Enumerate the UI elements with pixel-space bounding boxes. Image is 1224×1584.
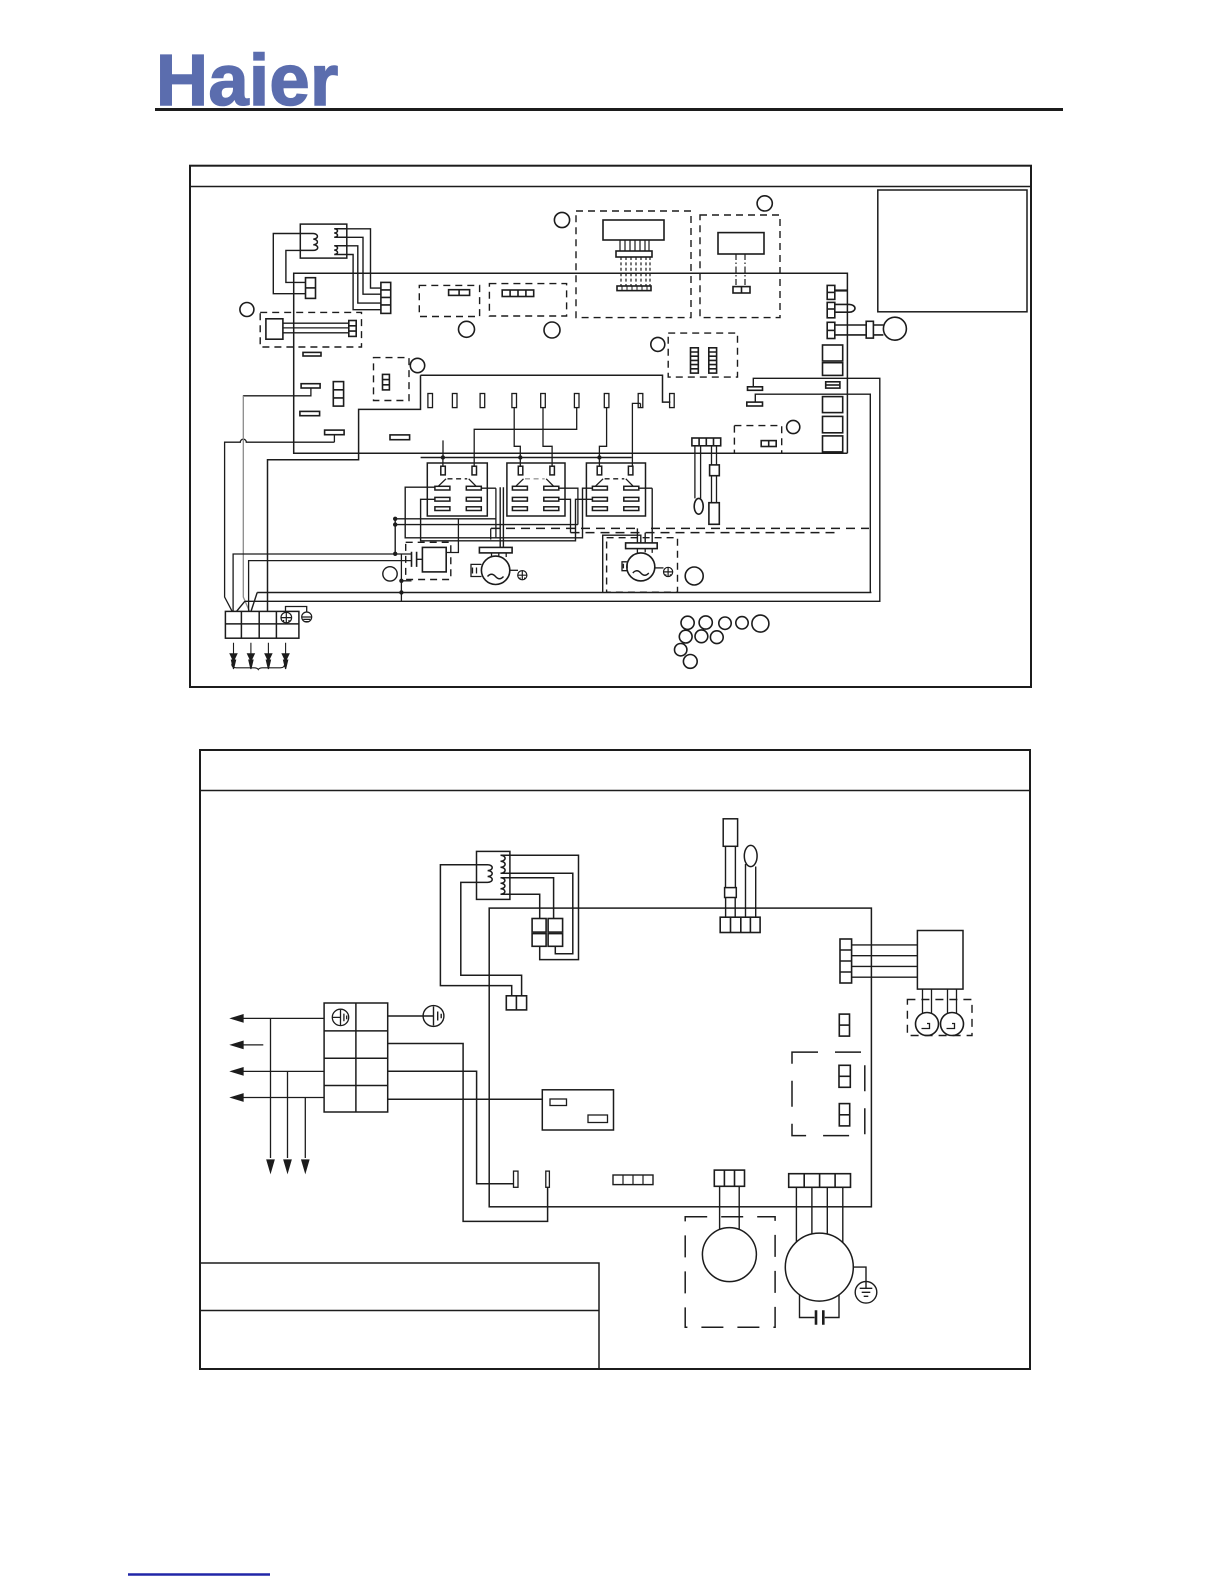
FM1 tilde — [488, 574, 504, 579]
wire bar to bus2 — [442, 440, 444, 457]
relay KM3 — [586, 463, 645, 516]
wire TB2 row3 out — [388, 1071, 514, 1183]
FM1 earth symbol — [518, 571, 527, 580]
sensor TH1 probe leads — [873, 325, 883, 335]
left arrow 3 — [232, 1068, 325, 1075]
control box bar 1 — [550, 1099, 567, 1106]
display body — [603, 220, 664, 240]
compressor body — [422, 547, 446, 572]
wire T2 primary left 2 — [461, 882, 522, 995]
jumper module dashed box — [668, 333, 737, 377]
junction dots W2 W3 — [393, 517, 397, 556]
dashed wire D1 — [491, 527, 869, 529]
FM3 dashed box — [685, 1217, 775, 1327]
connector CN-B 4-cell stack — [381, 282, 391, 313]
sensor TH1 bulb — [883, 317, 906, 340]
capacitor bar C-A — [390, 435, 410, 440]
left arrow 1 — [232, 1015, 325, 1022]
TB1 earth jumper wire — [286, 607, 307, 612]
wire JB2 right — [755, 394, 870, 592]
callout circle 6 — [757, 196, 772, 211]
wire T1 sec1 — [347, 229, 381, 288]
capillary leads — [746, 864, 756, 917]
small dashed box K2 — [374, 358, 410, 401]
display ribbon dashed leads — [621, 257, 650, 286]
terminal block TB2 — [324, 1003, 388, 1112]
circles cluster c2 — [699, 616, 712, 629]
control box bar 2 — [588, 1115, 608, 1123]
wire T2 primary left — [440, 865, 511, 996]
IC U1 — [266, 319, 283, 339]
callout circle 1 — [240, 303, 254, 317]
notes table row line 2 — [200, 1310, 599, 1312]
external earth symbol — [302, 612, 312, 622]
fuse F1 — [826, 382, 840, 388]
compressor motor CM — [785, 1233, 853, 1301]
bridge rectifier block — [532, 919, 546, 933]
lower diagram title band rule — [200, 790, 1030, 792]
circles cluster c10 — [683, 655, 697, 669]
sensor TH1 body — [866, 321, 873, 338]
wire motor1 feed riser — [500, 487, 503, 547]
component K1 3-cell vertical — [333, 382, 343, 407]
dashed box right TH — [734, 426, 781, 454]
connector CN-V 3-cell — [714, 1170, 744, 1186]
PCB stepped outline top edge — [421, 375, 671, 402]
wire gray riser — [243, 396, 249, 612]
wire relay2 bar to D2 riser — [559, 499, 571, 532]
callout circle 2 — [410, 358, 424, 372]
display pins — [620, 240, 649, 251]
relay unit box — [917, 931, 963, 990]
wire pin5 to relay2 right — [543, 408, 552, 467]
jumper bar JB2 — [747, 402, 763, 406]
probe band — [725, 888, 737, 898]
TB1 arrow 1 — [230, 643, 237, 669]
CM earth wire — [853, 1267, 866, 1281]
connector CN-L 2-cell with loop — [827, 285, 835, 299]
circles cluster c3 — [719, 617, 731, 629]
FM2 leads — [637, 549, 652, 553]
wire compressor link — [446, 519, 458, 553]
wires CN-Q to relay — [852, 945, 918, 977]
wire motor2 feeds — [637, 488, 652, 543]
compressor capacitor plates — [412, 552, 417, 567]
wire pin6 to relay1 right — [474, 408, 577, 467]
dashed box CAP-A — [419, 285, 479, 316]
fan motor FM2 dashed box — [607, 538, 678, 593]
fan motor FM3 — [702, 1228, 756, 1282]
riser down arrow 2 — [284, 1071, 291, 1172]
terminal block TB1 — [225, 611, 299, 638]
sensor body — [718, 233, 764, 254]
thermostat probe leads — [695, 446, 701, 499]
pin PA — [514, 1171, 519, 1187]
header rule — [155, 108, 1063, 111]
wire earth link — [388, 1015, 423, 1017]
dashed box CAP-B — [489, 284, 566, 316]
CM earth symbol — [855, 1282, 877, 1304]
fan motor FM2 — [627, 553, 655, 581]
circles cluster c9 — [675, 644, 687, 656]
wire pin4 to relay2 left — [514, 408, 520, 467]
connector CN-O 4-cell — [692, 438, 721, 446]
wire compressor cap feeds — [401, 554, 423, 559]
wire T1 sec4 — [347, 255, 381, 310]
valve coil SV2 — [941, 1013, 964, 1036]
notes table row line 1 — [200, 1263, 599, 1369]
FM1 leads — [492, 553, 507, 557]
wire pin1 to relay1 left — [442, 458, 444, 467]
transformer T2 — [477, 851, 510, 899]
SV2 glyph — [947, 1024, 955, 1029]
fan motor FM1 — [481, 556, 509, 584]
circles cluster c4 — [736, 617, 748, 629]
wire W2 — [395, 518, 496, 520]
Haier logo — [156, 41, 339, 121]
lower PCB outline — [489, 908, 871, 1207]
overload body — [712, 446, 717, 465]
upper diagram title band rule — [190, 186, 1031, 188]
connector CN-X 4-cell — [720, 917, 760, 932]
wire compressor junction riser — [401, 554, 411, 602]
compressor motor leads — [796, 1187, 842, 1242]
display bar — [616, 251, 652, 257]
connector CN-N 2-cell — [827, 322, 835, 338]
terminal squares on PCB right edge — [823, 345, 843, 361]
TB2 earth symbol — [332, 1009, 348, 1025]
connector CN-A 2-cell — [306, 278, 316, 299]
connector CN-J 6-cell stack — [709, 348, 717, 373]
lower diagram frame — [200, 750, 1030, 1369]
wire right loop riser — [603, 535, 641, 592]
display module dashed box — [576, 211, 691, 318]
probe stem lines — [726, 846, 736, 887]
circles cluster c7 — [695, 630, 708, 643]
wire T1 sec3 — [347, 246, 381, 303]
FM2 earth symbol — [664, 567, 673, 576]
wire ring A — [251, 593, 871, 612]
probe assembly top rect — [723, 819, 737, 847]
TB1 arrow 4 — [282, 643, 289, 669]
wire V-kink into terminal cell2 — [249, 561, 412, 612]
resistor bar RB4 — [325, 430, 345, 435]
thermostat bulb — [694, 498, 703, 514]
connector CN-T 2-cell — [839, 1104, 849, 1126]
riser down arrow 1 — [267, 1018, 274, 1172]
wire T2 sec3 to bridge — [510, 878, 554, 919]
wire relay1 bar to W2 riser — [481, 488, 496, 538]
valve dashed box — [907, 1000, 972, 1036]
left arrow 4 — [232, 1094, 325, 1101]
wire W3 — [395, 524, 578, 526]
wire left feed L-A with hop — [225, 439, 335, 611]
valve coil SV1 — [916, 1013, 939, 1036]
pin PB — [546, 1171, 550, 1187]
callout circle 8 — [787, 420, 800, 433]
dashed wire D2 — [571, 532, 836, 534]
wire T2 sec1 to bridge — [510, 855, 579, 959]
callout circle 12 — [685, 567, 703, 585]
PCB stepped outline top-left — [268, 375, 421, 611]
wire W1 relay1 bar left drop — [405, 487, 592, 538]
circles cluster c8 — [710, 631, 723, 644]
wire T1 left coil exit — [286, 250, 306, 282]
wire pin8 to relay3 right — [632, 403, 640, 466]
connector CN-K 2-cell — [761, 441, 776, 447]
wire T1 left primary loop — [273, 234, 305, 294]
wire CN-L to bus — [835, 289, 848, 291]
jumper bar JB1 — [748, 387, 763, 391]
upper diagram frame — [190, 166, 1031, 687]
wire TB2 row2 out — [388, 1044, 548, 1222]
capillary oval — [744, 845, 757, 866]
connector CN-F 4-cell — [502, 290, 534, 297]
FM2 capacitor — [622, 562, 627, 571]
connector CN-C 3-cell — [349, 321, 356, 337]
connector CN-E 2-cell — [449, 290, 470, 296]
wire RB2 lead — [243, 388, 311, 396]
resistor bar RB3 — [300, 411, 320, 415]
connector CN-R 2-cell — [839, 1014, 849, 1036]
TB1 arrow 2 — [248, 643, 255, 669]
option dashed box — [792, 1052, 865, 1136]
FM2 bracket — [626, 543, 658, 549]
wire T1 sec2 — [347, 237, 381, 294]
CM capacitor — [800, 1295, 840, 1318]
wire JB1 right — [753, 378, 880, 601]
wire V-kink into terminal cell1 — [233, 554, 400, 611]
sensor TH1 leads — [835, 325, 866, 335]
pin row P1..P9 — [428, 394, 674, 408]
transformer T1 — [300, 224, 347, 258]
PCB main outline — [294, 273, 848, 453]
wire relay2 bar to W3 — [559, 488, 578, 524]
sensor module dashed box — [700, 215, 780, 318]
connector CN-M 2-cell — [827, 302, 835, 317]
connector CN-G row — [617, 286, 651, 291]
connector CN-D 3-cell — [383, 374, 390, 390]
bus2 relay feed line — [421, 457, 632, 459]
chassis earth symbol ES1 — [423, 1006, 444, 1027]
probe stem lower — [726, 898, 736, 918]
wire TB2 row4 to control box — [388, 1098, 543, 1100]
wire ring B — [237, 601, 881, 611]
circles cluster c1 — [681, 616, 694, 629]
junction dots bus2 — [441, 455, 602, 459]
left arrow 2 — [232, 1041, 264, 1048]
callout circle 5 — [554, 212, 569, 227]
sensor dash-dot leads — [736, 254, 745, 287]
relay KM2 — [507, 463, 565, 516]
coil leads — [923, 989, 957, 1014]
FM2 tilde — [633, 571, 649, 576]
jumper loop D-shape — [835, 304, 855, 312]
TB1 arrow 3 — [265, 643, 272, 669]
wire T2 sec2 to bridge — [510, 873, 573, 953]
FM1 capacitor — [471, 564, 482, 576]
IC leads — [283, 323, 349, 333]
connector CN-W 4-cell — [789, 1174, 851, 1188]
FM1 ground wire — [510, 569, 518, 571]
fan motor leads lower — [720, 1186, 740, 1229]
callout circle 11 — [383, 567, 397, 581]
brace under arrows — [232, 664, 285, 670]
wire pin7 to relay3 left — [599, 408, 606, 467]
callout circle 3 — [459, 321, 475, 337]
wire D1 to W1 link — [490, 528, 492, 539]
connector CN-U row — [613, 1175, 653, 1185]
control box — [542, 1090, 613, 1130]
callout circle 4 — [544, 322, 560, 338]
connector CN-P 2-cell — [506, 996, 526, 1010]
callout circle 7 — [651, 337, 665, 351]
circles cluster c6 — [679, 630, 692, 643]
footer rule blue — [128, 1573, 270, 1575]
compressor dashed box — [406, 542, 451, 579]
IC module dashed box — [260, 312, 361, 347]
connector CN-Q 4-cell — [840, 939, 852, 983]
SV1 glyph — [922, 1024, 930, 1029]
connector CN-H 2-cell — [733, 287, 750, 293]
resistor bar RB2 — [301, 384, 320, 388]
fan motor FM1 bracket — [479, 547, 512, 553]
FM2 ground wire — [655, 567, 664, 569]
wire T2 sec4 to bridge — [510, 894, 540, 918]
wire RB4 lead — [333, 435, 335, 443]
wire riser to compressor feed — [394, 519, 396, 554]
resistor bar RB1 — [303, 352, 321, 356]
connector CN-I 6-cell stack — [691, 348, 699, 373]
legend box top right — [878, 190, 1027, 312]
connector CN-S 2-cell — [839, 1065, 850, 1087]
TB1 earth symbol inside — [281, 612, 292, 623]
relay KM1 — [427, 463, 487, 516]
riser down arrow 3 — [302, 1098, 309, 1173]
circles cluster c5 — [752, 615, 769, 632]
junction dots ring — [399, 579, 403, 595]
